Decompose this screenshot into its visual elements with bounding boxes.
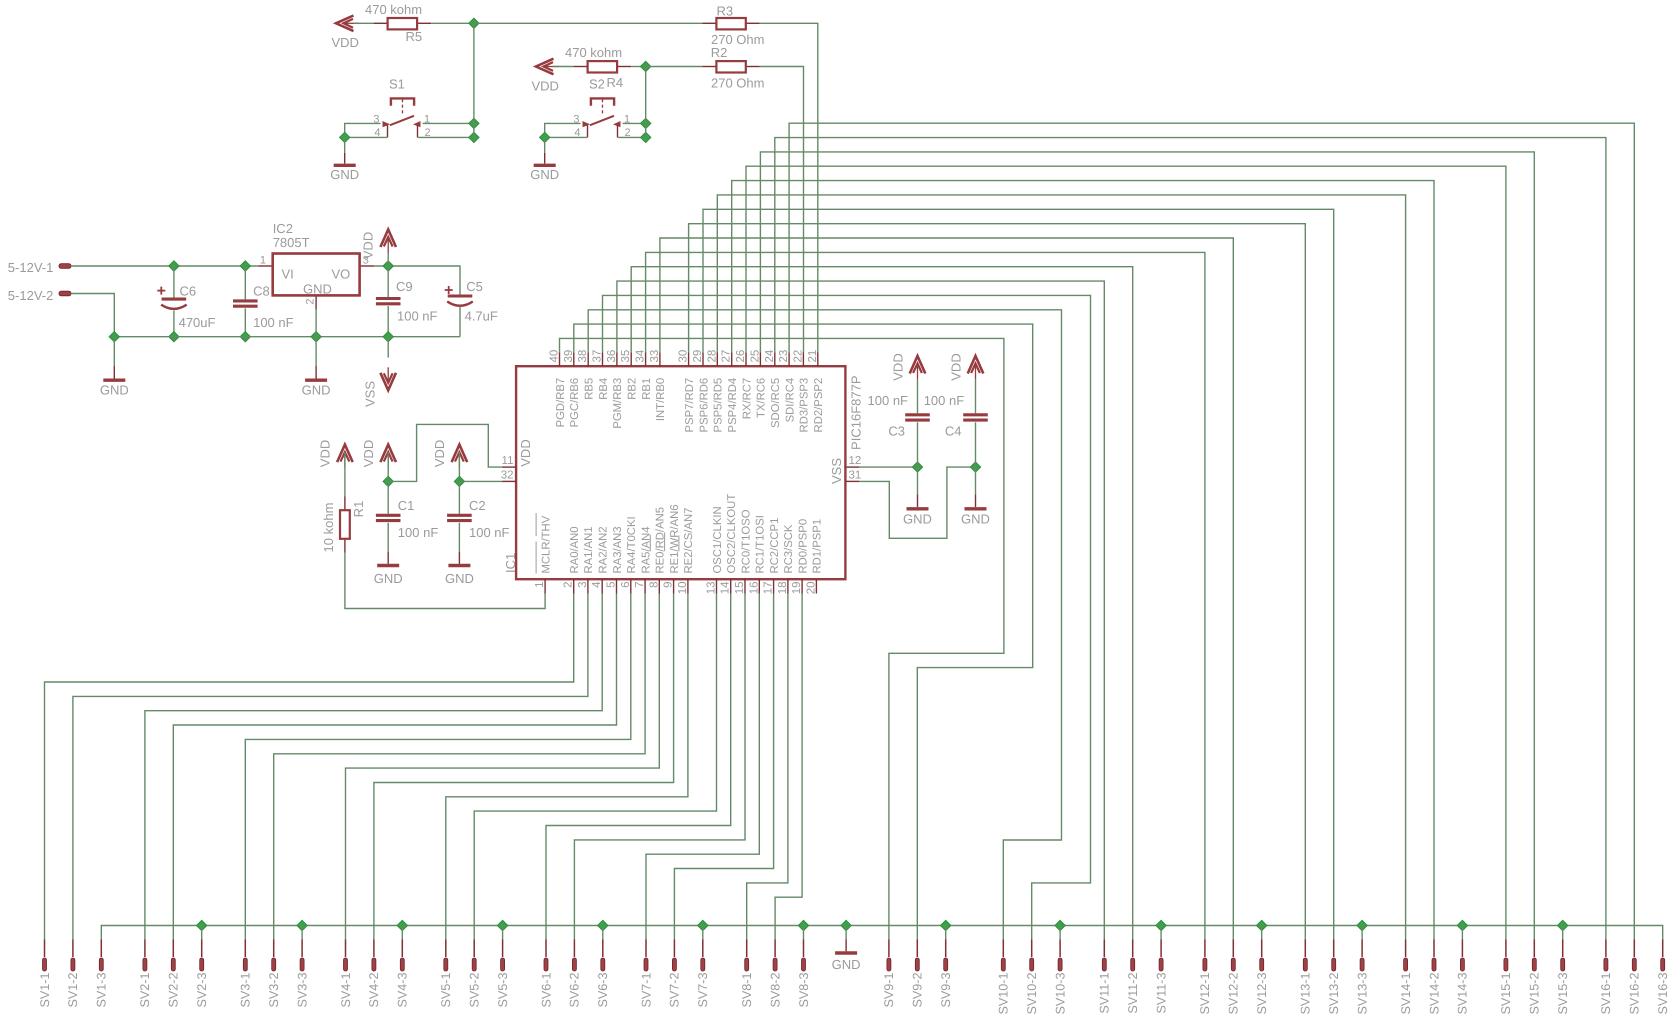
svg-text:21: 21 xyxy=(807,350,819,363)
svg-text:37: 37 xyxy=(592,350,604,363)
connector pin SV2-3 xyxy=(201,940,203,958)
svg-text:RC3/SCK: RC3/SCK xyxy=(783,524,795,573)
wire bus to SV7-3 xyxy=(702,926,704,940)
connector pin SV13-1 xyxy=(1304,940,1306,958)
svg-text:SV8-2: SV8-2 xyxy=(768,973,782,1008)
connector pin SV14-2 xyxy=(1433,940,1435,958)
node junction S2 GND branch xyxy=(540,132,550,142)
overline WR on pin 9 xyxy=(664,532,666,551)
power symbol VDD above C2 xyxy=(452,445,468,468)
svg-text:RD0/PSP0: RD0/PSP0 xyxy=(797,519,809,574)
overline CS on pin 10 xyxy=(678,536,680,552)
connector pin SV2-2 xyxy=(172,940,174,958)
ground symbol below S2 xyxy=(534,164,556,167)
connector pin SV12-3 xyxy=(1261,940,1263,958)
svg-text:2: 2 xyxy=(305,299,317,305)
svg-text:IC2: IC2 xyxy=(273,221,293,236)
svg-text:10 kohm: 10 kohm xyxy=(321,503,336,553)
connector pin SV16-2 xyxy=(1633,940,1635,958)
IC1 pin 2 stub and number xyxy=(573,579,575,593)
svg-text:IC1: IC1 xyxy=(503,553,518,573)
connector pin SV15-3 xyxy=(1562,940,1564,958)
switch S1 contact ticks xyxy=(387,125,389,137)
wire S1 pin 1 to junction xyxy=(423,122,474,124)
wire bus to SV8-3 xyxy=(803,926,805,940)
connector pin SV14-1 xyxy=(1405,940,1407,958)
svg-text:SV11-2: SV11-2 xyxy=(1126,973,1140,1014)
wire IC1 pin 3 to SV1-2 xyxy=(73,594,588,940)
svg-text:GND: GND xyxy=(530,167,559,182)
switch S2 xyxy=(590,98,614,125)
svg-text:100 nF: 100 nF xyxy=(469,525,510,540)
svg-text:RB1: RB1 xyxy=(641,378,653,400)
microcontroller IC1 PIC16F877P body xyxy=(516,366,845,579)
svg-text:24: 24 xyxy=(764,349,776,362)
ground symbol below C2 xyxy=(448,564,470,567)
node junction C6 top xyxy=(169,261,179,271)
svg-text:19: 19 xyxy=(791,582,803,595)
svg-text:20: 20 xyxy=(805,582,817,595)
svg-text:100 nF: 100 nF xyxy=(253,315,294,330)
connector pin SV9-1 xyxy=(888,940,890,958)
capacitor C3 100 nF xyxy=(917,379,919,413)
connector pin SV6-1 xyxy=(545,940,547,958)
capacitor C4 100 nF xyxy=(975,379,977,413)
wire VDD to R4 xyxy=(554,66,574,68)
svg-text:GND: GND xyxy=(374,571,403,586)
svg-text:26: 26 xyxy=(735,350,747,363)
node junction VDD/C9 tap xyxy=(383,261,393,271)
svg-text:VDD: VDD xyxy=(361,232,376,259)
wire S1 pin 3 to GND branch xyxy=(345,123,381,137)
svg-text:22: 22 xyxy=(792,350,804,363)
IC1 pin 37 stub and number xyxy=(602,352,604,366)
svg-text:SV7-2: SV7-2 xyxy=(668,973,682,1008)
svg-text:5-12V-1: 5-12V-1 xyxy=(8,260,54,275)
wire junction to R3 xyxy=(474,22,703,24)
wire IC1 pin 12 to C3 node xyxy=(859,466,917,468)
IC1 pin 36 stub and number xyxy=(616,352,618,366)
node junction SV13-3 on GND bus xyxy=(1357,920,1367,930)
wire bus to SV12-3 xyxy=(1261,926,1263,940)
svg-text:GND: GND xyxy=(961,512,990,527)
IC1 pin 32 stub xyxy=(502,480,516,482)
svg-text:RC2/CCP1: RC2/CCP1 xyxy=(769,518,781,574)
connector pin SV14-3 xyxy=(1461,940,1463,958)
wire IC1 pin 9 to SV4-2 xyxy=(374,594,674,940)
wire C1 node to IC1 pin 11 (VDD) bridge xyxy=(388,424,502,481)
node junction SV11-3 on GND bus xyxy=(1156,920,1166,930)
svg-text:VI: VI xyxy=(282,267,294,282)
svg-text:470 kohm: 470 kohm xyxy=(565,45,622,60)
svg-text:RC1/T1OSI: RC1/T1OSI xyxy=(755,515,767,573)
connector pin SV12-1 xyxy=(1204,940,1206,958)
wire bus to SV3-3 xyxy=(301,926,303,940)
svg-text:PSP7/RD7: PSP7/RD7 xyxy=(684,378,696,433)
connector pin SV8-3 xyxy=(803,940,805,958)
overline MCLR/THV on pin 1 xyxy=(535,542,537,574)
connector pin SV16-3 xyxy=(1662,940,1664,958)
power symbol VSS (down arrow) xyxy=(387,337,389,358)
connector pin SV11-2 xyxy=(1132,940,1134,958)
svg-text:32: 32 xyxy=(501,470,514,482)
node junction R5/R3/S1 xyxy=(469,18,479,28)
svg-text:RA3/AN3: RA3/AN3 xyxy=(612,526,624,573)
wire IC1 pin 25 to SV15-2 xyxy=(760,152,1534,940)
wire IC1 pin 18 to SV8-1 xyxy=(747,594,788,940)
svg-text:GND: GND xyxy=(445,571,474,586)
wire IC1 pin 13 to SV5-2 xyxy=(474,594,716,940)
wire R3 to IC1 pin 21 xyxy=(760,23,818,352)
svg-text:PSP5/RD5: PSP5/RD5 xyxy=(713,378,725,433)
wire bus to SV5-3 xyxy=(502,926,504,940)
IC1 pin 9 stub and number xyxy=(673,579,675,593)
connector pin SV16-1 xyxy=(1605,940,1607,958)
svg-text:SV7-3: SV7-3 xyxy=(696,973,710,1008)
resistor R1 10 kohm xyxy=(344,452,346,496)
svg-text:470uF: 470uF xyxy=(179,315,216,330)
wire R4 to node xyxy=(631,66,646,68)
capacitor C1 100 nF xyxy=(387,481,389,513)
connector pin SV3-3 xyxy=(301,940,303,958)
connector pin SV3-2 xyxy=(273,940,275,958)
svg-text:SV12-2: SV12-2 xyxy=(1227,973,1241,1015)
wire 5-12V-1 to IC2 VI xyxy=(71,265,259,267)
svg-text:23: 23 xyxy=(778,350,790,363)
svg-text:C8: C8 xyxy=(253,284,270,299)
power symbol VDD (7805 output) xyxy=(387,252,389,266)
wire bus to SV4-3 xyxy=(401,926,403,940)
svg-text:12: 12 xyxy=(849,455,862,467)
svg-text:40: 40 xyxy=(549,350,561,363)
ground symbol below C3 xyxy=(907,507,929,510)
svg-text:VSS: VSS xyxy=(363,381,378,407)
svg-text:28: 28 xyxy=(706,350,718,363)
svg-text:RC0/T1OSO: RC0/T1OSO xyxy=(740,509,752,573)
svg-text:RB5: RB5 xyxy=(584,378,596,400)
connector pin SV15-1 xyxy=(1505,940,1507,958)
connector pin SV1-1 xyxy=(44,940,46,958)
capacitor C2 100 nF xyxy=(458,481,460,513)
connector pin SV1-2 xyxy=(72,940,74,958)
IC1 pin 14 stub and number xyxy=(730,579,732,593)
node junction SV7-3 on GND bus xyxy=(698,920,708,930)
IC1 pin 30 stub and number xyxy=(688,352,690,366)
svg-text:R3: R3 xyxy=(717,4,734,19)
wire IC1 pin 2 to SV1-1 xyxy=(45,594,574,940)
svg-text:SV1-2: SV1-2 xyxy=(66,973,80,1008)
wire VDD to C1 node xyxy=(387,452,389,481)
IC1 pin 19 stub and number xyxy=(801,579,803,593)
wire IC1 pin 15 to SV6-2 xyxy=(574,594,745,940)
svg-text:SV6-3: SV6-3 xyxy=(596,973,610,1008)
svg-text:39: 39 xyxy=(563,350,575,363)
node junction C4 xyxy=(970,462,980,472)
node junction C3 xyxy=(912,462,922,472)
capacitor C8 100 nF xyxy=(244,266,246,299)
node junction SV3-3 on GND bus xyxy=(297,920,307,930)
svg-text:RA1/AN1: RA1/AN1 xyxy=(583,526,595,573)
wire IC1 pin 19 to SV8-2 xyxy=(775,594,802,940)
svg-text:SV9-3: SV9-3 xyxy=(939,973,953,1008)
wire IC1 pin 10 to SV5-1 xyxy=(446,594,688,940)
svg-text:SV8-3: SV8-3 xyxy=(797,973,811,1008)
ground symbol IC2 xyxy=(305,379,327,382)
connector pin SV6-2 xyxy=(573,940,575,958)
connector pin SV5-1 xyxy=(445,940,447,958)
wire IC1 pin 23 to SV16-2 xyxy=(789,123,1634,939)
resistor R3 270 Ohm xyxy=(702,22,716,24)
node junction SV12-3 on GND bus xyxy=(1257,920,1267,930)
IC1 pin 1 stub and number xyxy=(544,579,546,593)
IC1 pin 4 stub and number xyxy=(601,579,603,593)
svg-text:RD2/PSP2: RD2/PSP2 xyxy=(813,378,825,433)
svg-text:SV10-2: SV10-2 xyxy=(1025,973,1039,1015)
resistor R4 470 kohm xyxy=(574,66,588,68)
connector pin SV6-3 xyxy=(602,940,604,958)
connector pin SV8-2 xyxy=(774,940,776,958)
svg-text:270 Ohm: 270 Ohm xyxy=(711,76,764,91)
wire IC1 pin 7 to SV3-2 xyxy=(274,594,645,940)
node junction S2 pin2 xyxy=(641,132,651,142)
wire S1 to ground xyxy=(344,137,346,153)
IC1 pin 22 stub and number xyxy=(802,352,804,366)
svg-text:S2: S2 xyxy=(589,77,605,92)
IC1 pin 38 stub and number xyxy=(587,352,589,366)
wire S1 pin 2 to junction xyxy=(418,136,474,138)
wire VDD to C2 node xyxy=(458,452,460,481)
wire IC1 pin 27 to SV14-2 xyxy=(732,181,1434,940)
node junction C8 bottom xyxy=(240,332,250,342)
svg-text:C1: C1 xyxy=(398,498,415,513)
svg-text:470 kohm: 470 kohm xyxy=(365,2,422,17)
svg-text:SV15-3: SV15-3 xyxy=(1556,973,1570,1015)
svg-text:VDD: VDD xyxy=(948,353,963,380)
svg-text:18: 18 xyxy=(777,582,789,595)
svg-text:SV5-2: SV5-2 xyxy=(468,973,482,1008)
svg-text:SV2-1: SV2-1 xyxy=(138,973,152,1008)
wire IC1 pin 29 to SV13-2 xyxy=(703,209,1334,939)
node junction SV10-3 on GND bus xyxy=(1055,920,1065,930)
IC1 pin 25 stub and number xyxy=(759,352,761,366)
svg-text:VDD: VDD xyxy=(518,439,533,466)
node junction SV6-3 on GND bus xyxy=(598,920,608,930)
svg-text:SV13-1: SV13-1 xyxy=(1299,973,1313,1015)
capacitor C6 470uF xyxy=(173,266,175,298)
wire IC1 pin 24 to SV16-1 xyxy=(775,138,1606,940)
resistor R5 470 kohm xyxy=(374,22,388,24)
svg-text:35: 35 xyxy=(620,350,632,363)
wire S2 pin 3 to GND branch xyxy=(545,123,581,137)
svg-text:5: 5 xyxy=(606,582,618,588)
node junction SV9-3 on GND bus xyxy=(941,920,951,930)
svg-text:R4: R4 xyxy=(607,75,624,90)
wire bus to SV11-3 xyxy=(1160,926,1162,940)
node junction SV2-3 on GND bus xyxy=(197,920,207,930)
svg-text:2: 2 xyxy=(563,582,575,588)
connector pin SV7-3 xyxy=(702,940,704,958)
svg-text:GND: GND xyxy=(903,512,932,527)
svg-text:6: 6 xyxy=(620,582,632,588)
svg-text:SV12-1: SV12-1 xyxy=(1198,973,1212,1015)
svg-text:3: 3 xyxy=(577,582,589,588)
node junction SV8-3 on GND bus xyxy=(798,920,808,930)
wire IC1 pin 40 to SV9-1 xyxy=(560,338,1004,939)
svg-text:SV8-1: SV8-1 xyxy=(740,973,754,1008)
connector pin SV7-1 xyxy=(645,940,647,958)
wire IC1 pin 14 to SV6-1 xyxy=(546,594,731,940)
svg-text:RE2/CS/AN7: RE2/CS/AN7 xyxy=(683,508,695,574)
svg-text:4.7uF: 4.7uF xyxy=(465,309,498,324)
svg-text:34: 34 xyxy=(635,349,647,362)
svg-text:SV3-3: SV3-3 xyxy=(295,973,309,1008)
svg-text:SV16-3: SV16-3 xyxy=(1656,973,1670,1015)
svg-text:100 nF: 100 nF xyxy=(397,309,438,324)
svg-text:VSS: VSS xyxy=(829,458,844,484)
node junction SV14-3 on GND bus xyxy=(1457,920,1467,930)
wire IC1 pin 5 to SV2-2 xyxy=(173,594,616,940)
wire bus to SV15-3 xyxy=(1562,926,1564,940)
capacitor C9 100 nF xyxy=(387,266,389,297)
svg-text:C2: C2 xyxy=(469,498,486,513)
svg-text:RB2: RB2 xyxy=(627,378,639,400)
ground symbol below S1 xyxy=(334,164,356,167)
svg-text:VDD: VDD xyxy=(361,440,376,467)
node junction SV4-3 on GND bus xyxy=(397,920,407,930)
node junction C2 top xyxy=(454,476,464,486)
wire IC1 pin 4 to SV2-1 xyxy=(145,594,602,940)
wire R5 to node RB2NET xyxy=(431,22,474,24)
svg-text:SV9-1: SV9-1 xyxy=(882,973,896,1008)
node junction VSS tap xyxy=(383,332,393,342)
connector pin SV9-3 xyxy=(945,940,947,958)
svg-text:VDD: VDD xyxy=(318,440,333,467)
IC1 pin 33 stub and number xyxy=(659,352,661,366)
node junction S1 pin2 xyxy=(469,132,479,142)
wire bus to SV13-3 xyxy=(1361,926,1363,940)
svg-text:SV1-3: SV1-3 xyxy=(95,973,109,1008)
svg-text:14: 14 xyxy=(720,581,732,594)
wire VDD to R5 xyxy=(354,22,374,24)
connector pin SV11-3 xyxy=(1160,940,1162,958)
svg-text:R5: R5 xyxy=(406,29,423,44)
svg-text:R1: R1 xyxy=(351,501,366,518)
connector pin SV13-2 xyxy=(1333,940,1335,958)
wire feed down to S1 xyxy=(473,23,475,137)
overline RD on pin 8 xyxy=(649,535,651,551)
wire C2 node to IC1 pin 32 (VDD) xyxy=(459,480,502,482)
svg-text:SV1-1: SV1-1 xyxy=(38,973,52,1008)
wire bus to ground symbol xyxy=(845,926,847,940)
svg-text:SV11-3: SV11-3 xyxy=(1154,973,1168,1014)
IC1 pin 20 stub and number xyxy=(815,579,817,593)
IC1 pin 28 stub and number xyxy=(716,352,718,366)
switch S1 xyxy=(390,98,414,125)
svg-text:C9: C9 xyxy=(396,279,413,294)
svg-text:GND: GND xyxy=(302,383,331,398)
svg-text:PSP4/RD4: PSP4/RD4 xyxy=(727,378,739,433)
wire IC1 pin 33 to SV12-2 xyxy=(660,238,1233,940)
wire GND bus xyxy=(101,926,1662,940)
IC1 pin 8 stub and number xyxy=(658,579,660,593)
wire IC1 pin 17 to SV7-2 xyxy=(674,594,773,940)
svg-text:PGM/RB3: PGM/RB3 xyxy=(612,378,624,429)
svg-text:SV9-2: SV9-2 xyxy=(911,973,925,1008)
IC1 pin 11 stub xyxy=(502,466,516,468)
IC1 pin 34 stub and number xyxy=(645,352,647,366)
svg-text:16: 16 xyxy=(748,582,760,595)
node junction SV5-3 on GND bus xyxy=(497,920,507,930)
svg-text:RA2/AN2: RA2/AN2 xyxy=(598,526,610,573)
svg-text:C6: C6 xyxy=(180,284,197,299)
svg-text:38: 38 xyxy=(577,350,589,363)
IC1 pin 35 stub and number xyxy=(630,352,632,366)
svg-text:PGD/RB7: PGD/RB7 xyxy=(555,378,567,428)
svg-text:17: 17 xyxy=(763,582,775,595)
wire S2 to ground xyxy=(544,137,546,153)
power symbol VDD above C1 xyxy=(380,445,396,468)
wire IC2 GND pin to rail and ground xyxy=(315,310,317,337)
node junction C1 top xyxy=(383,476,393,486)
IC1 pin 3 stub and number xyxy=(587,579,589,593)
connector pin SV5-3 xyxy=(502,940,504,958)
IC1 pin 10 stub and number xyxy=(687,579,689,593)
wire S2 pin 2 to junction xyxy=(618,136,646,138)
svg-text:INT/RB0: INT/RB0 xyxy=(655,378,667,421)
svg-text:SV2-3: SV2-3 xyxy=(195,973,209,1008)
connector pin SV12-2 xyxy=(1232,940,1234,958)
connector pin SV4-3 xyxy=(401,940,403,958)
svg-text:PIC16F877P: PIC16F877P xyxy=(849,376,864,450)
svg-text:29: 29 xyxy=(692,350,704,363)
IC1 pin 5 stub and number xyxy=(616,579,618,593)
svg-text:SV13-2: SV13-2 xyxy=(1327,973,1341,1015)
wire feed down to S2 xyxy=(645,67,647,138)
svg-text:SV10-1: SV10-1 xyxy=(997,973,1011,1015)
wire R2 to IC1 pin 22 xyxy=(760,67,804,353)
svg-text:TX/RC6: TX/RC6 xyxy=(756,378,768,418)
connector pin SV10-2 xyxy=(1031,940,1033,958)
connector pin SV10-1 xyxy=(1002,940,1004,958)
connector pin SV3-1 xyxy=(244,940,246,958)
node junction C8 top xyxy=(240,261,250,271)
wire bus to SV2-3 xyxy=(201,926,203,940)
IC1 pin 13 stub and number xyxy=(716,579,718,593)
svg-text:7805T: 7805T xyxy=(273,235,310,250)
svg-text:MCLR/THV: MCLR/THV xyxy=(540,515,552,573)
svg-text:GND: GND xyxy=(100,383,129,398)
wire IC1 pin 34 to SV12-1 xyxy=(646,252,1205,939)
svg-text:1: 1 xyxy=(260,255,266,267)
ground symbol below C1 xyxy=(377,564,399,567)
svg-text:GND: GND xyxy=(832,957,861,972)
IC1 pin 16 stub and number xyxy=(758,579,760,593)
svg-text:SV15-2: SV15-2 xyxy=(1528,973,1542,1015)
svg-text:31: 31 xyxy=(849,470,862,482)
connector pin SV4-2 xyxy=(373,940,375,958)
ground symbol left rail xyxy=(113,337,115,366)
IC1 pin 7 stub and number xyxy=(644,579,646,593)
wire bus to SV10-3 xyxy=(1059,926,1061,940)
IC1 pin 12 stub xyxy=(845,466,859,468)
voltage regulator IC2 7805T xyxy=(258,265,272,267)
svg-text:10: 10 xyxy=(677,582,689,595)
wire 5-12V-2 to ground rail xyxy=(71,294,115,337)
svg-text:SV14-1: SV14-1 xyxy=(1399,973,1413,1015)
svg-text:9: 9 xyxy=(663,582,675,588)
IC1 pin 40 stub and number xyxy=(559,352,561,366)
node junction R4/R2/S2 xyxy=(641,61,651,71)
